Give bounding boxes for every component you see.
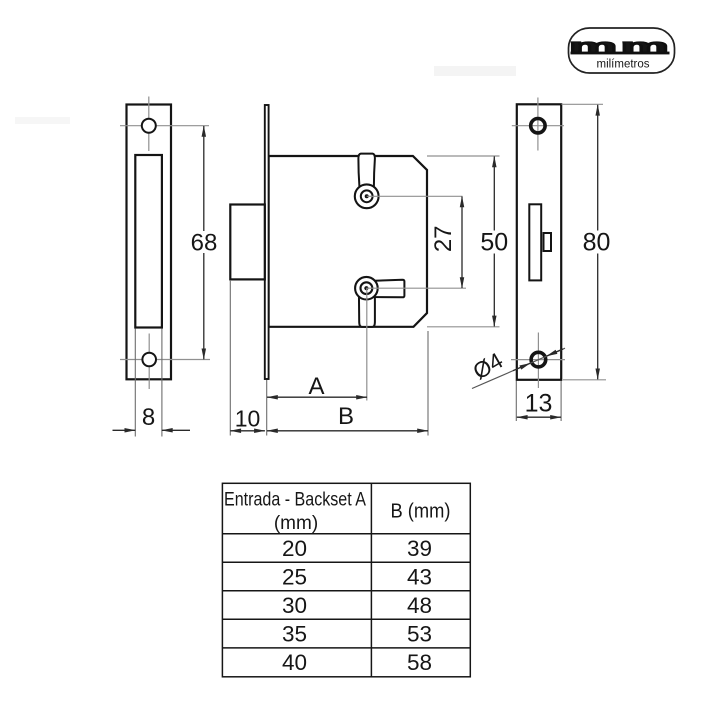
svg-text:30: 30 [282,593,307,618]
svg-text:80: 80 [583,229,611,257]
left faceplate bottom screw hole [142,353,156,367]
extension of body top edge to 50 dim [427,155,500,157]
svg-text:40: 40 [282,650,307,675]
right plate slot notch [544,233,552,251]
extension line from top key center to 27 dim [367,195,463,197]
dimension 8 line with inward arrows [113,429,191,431]
svg-text:27: 27 [430,225,457,252]
table row divider 4 [222,647,470,649]
svg-text:39: 39 [407,536,432,561]
bottom key pivot outer circle [355,277,378,300]
svg-text:43: 43 [407,564,432,589]
svg-text:A: A [308,373,324,400]
table data rows [282,536,432,675]
logo mm wordmark [569,35,672,57]
right plate outline [517,104,561,380]
dimension 13 extension lines [515,381,517,421]
extension line from bottom key center to 27 dim [366,287,466,289]
left faceplate top screw hole [142,119,156,133]
bottom key paddle (right) [374,280,404,298]
watermark faint bar [434,66,516,76]
bottom key pivot center dot [364,286,368,290]
diameter 4 leader arrowheads [513,349,563,371]
dimension 13 line [517,416,561,418]
dimension B line [267,430,428,432]
dimension 68 line [203,126,205,359]
top key pivot inner circle [361,190,373,202]
svg-text:(mm): (mm) [274,513,318,534]
table column divider [370,483,372,677]
right bottom screw hole centerline vertical [537,333,539,389]
right plate top screw hole (thick ring) [531,119,545,133]
extension line for B right end [427,331,429,436]
svg-text:B: B [338,403,354,430]
bottom key pivot inner circle [361,282,373,294]
deadbolt [230,205,264,280]
svg-text:Ø4: Ø4 [469,348,507,385]
lock body outline with chamfered right corners [269,156,427,327]
svg-text:50: 50 [480,229,508,257]
bottom key lever stem (downward) [359,290,375,327]
svg-text:8: 8 [142,404,155,431]
right top screw hole centerline vertical [537,98,539,151]
extension line below faceplate front (A/B left end) [266,380,268,436]
table row divider 1 [222,561,470,563]
logo pill border [569,28,675,73]
dimension 80 line [597,105,599,380]
right plate bolt slot [529,204,541,280]
svg-text:B (mm): B (mm) [391,501,451,523]
svg-text:35: 35 [282,621,307,646]
table outer border [222,483,470,677]
bottom screw hole centerline vertical [148,334,150,390]
extension of body bottom edge to 50 dim [427,326,500,328]
extension of right plate top edge to 80 dim [562,103,604,105]
table row divider 2 [222,590,470,592]
svg-text:25: 25 [282,564,307,589]
dimension 50 line [493,156,495,326]
svg-text:Entrada - Backset A: Entrada - Backset A [224,490,366,511]
top key pivot center dot [365,194,369,198]
svg-text:13: 13 [525,390,553,418]
bottom screw hole centerline horizontal (extends to 68 dim) [120,359,210,361]
right plate bottom screw hole (thick ring) [531,352,546,367]
table header divider [222,533,470,535]
svg-text:20: 20 [282,536,307,561]
top key lever stem [358,154,375,187]
dimension A line [267,396,367,398]
svg-text:10: 10 [235,406,261,432]
right top screw hole centerline horizontal [512,125,564,127]
extension of right plate bottom edge to 80 dim [563,379,606,381]
top screw hole centerline vertical [148,97,150,152]
svg-text:48: 48 [407,593,432,618]
diameter 4 leader line [472,348,565,388]
svg-text:68: 68 [191,230,218,257]
logo underline [571,52,670,55]
right bottom screw hole centerline horizontal [511,359,565,361]
svg-text:milímetros: milímetros [596,59,649,71]
top screw hole centerline horizontal (extends to 68 dim) [120,125,209,127]
dimension 10 line [230,430,265,432]
top key pivot outer circle [355,184,379,208]
watermark faint smudge top-left [15,117,70,124]
left faceplate outline [127,105,172,380]
extension line below deadbolt face (10 left end) [229,280,231,436]
svg-text:53: 53 [407,621,432,646]
table row divider 3 [222,618,470,620]
svg-text:58: 58 [407,650,432,675]
faceplate edge view [265,105,269,379]
bottom key centerline vertical (extends to A dim) [366,288,368,400]
dimension 8 extension lines [134,329,136,437]
dimension 27 line [461,197,463,289]
left faceplate slot cutout [135,155,162,328]
